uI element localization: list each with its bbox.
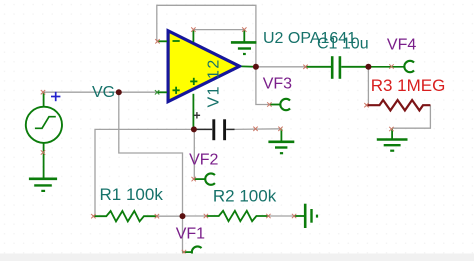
voltage generator VG circle: [26, 107, 62, 143]
op-amp inverting input marker: [173, 40, 180, 42]
resistor R2: [206, 211, 269, 221]
resistor R1: [93, 211, 156, 221]
wire node VF1 down to probe VF1: [183, 216, 186, 252]
resistor R3: [367, 100, 431, 110]
wire output node down to probe VF3: [256, 67, 270, 105]
probe VF3: [269, 99, 290, 110]
ground right of resistor R2 (rotated): [294, 204, 317, 228]
wire node VF4 down to resistor R3: [367, 67, 369, 105]
op-amp supply plus marker: [190, 78, 197, 85]
capacitor C2 plates (middle, dark): [214, 119, 225, 140]
node VF1 junction dot: [180, 213, 186, 219]
wire node VF4 to probe VF4: [368, 66, 404, 68]
wire node VF1 to resistor R2: [183, 215, 206, 217]
plus marker near V- pin: [194, 112, 200, 118]
node VF2 junction dot: [191, 126, 197, 132]
wire resistor R2 to right ground: [268, 215, 305, 217]
op-amp V+ pin: [192, 30, 194, 42]
svg-text:R3 1MEG: R3 1MEG: [371, 76, 446, 95]
svg-text:R1 100k: R1 100k: [100, 185, 164, 204]
voltage generator top lead: [43, 92, 45, 107]
node VG junction dot: [116, 89, 122, 95]
probe VF2: [194, 173, 215, 184]
node output junction dot: [253, 64, 259, 70]
ground below resistor R3: [377, 129, 408, 151]
svg-text:VG: VG: [92, 84, 115, 101]
op-amp output pin: [242, 65, 256, 67]
wire output node to capacitor C1: [256, 66, 306, 68]
pin cross marker at op-amp + input: [155, 90, 159, 94]
op-amp U2 triangle: [167, 28, 244, 104]
svg-text:R2 100k: R2 100k: [213, 187, 277, 206]
capacitor C2 right lead: [226, 128, 234, 130]
bottom window strip: [0, 254, 474, 261]
voltage generator waveform: [35, 117, 56, 129]
svg-text:VF4: VF4: [387, 37, 416, 54]
ground at op-amp V+: [231, 30, 257, 54]
pin cross markers: [41, 27, 394, 254]
wire node VG down to node VF1: [119, 92, 183, 216]
wire resistor R3 to lower-right ground: [392, 105, 430, 128]
wire VG source to op-amp non-inverting input: [43, 91, 158, 93]
wire feedback loop output to inverting input: [157, 5, 256, 67]
wire resistor R1 right lead to node VF1: [157, 215, 183, 217]
wire node VF2 to resistor R1: [95, 129, 194, 216]
voltage generator plus polarity: [51, 92, 60, 101]
capacitor C1 right lead: [341, 66, 368, 68]
node VF4 junction dot: [365, 64, 371, 70]
probe VF1: [183, 246, 202, 257]
op-amp inverting input pin: [158, 40, 168, 42]
svg-text:VF1: VF1: [176, 225, 205, 242]
wire node VF2 down to probe VF2: [194, 129, 196, 179]
svg-text:VF2: VF2: [189, 151, 218, 168]
capacitor C1 plates: [332, 56, 340, 79]
probe VF4: [404, 61, 414, 72]
ground right of capacitor C2: [268, 129, 294, 153]
capacitor C2 left lead: [195, 128, 213, 130]
wire capacitor C2 right plate to middle ground: [234, 128, 281, 131]
ground below generator: [29, 179, 57, 191]
svg-text:VF3: VF3: [263, 75, 292, 92]
svg-text:V1 12: V1 12: [205, 58, 222, 107]
svg-text:C1 10u: C1 10u: [317, 35, 369, 52]
wire op-amp V+ pin to top ground: [193, 29, 244, 31]
voltage generator bottom lead: [43, 143, 45, 179]
op-amp non-inverting input pin: [158, 91, 168, 93]
op-amp V- pin: [192, 94, 194, 130]
capacitor C1 left lead: [306, 66, 332, 68]
op-amp non-inverting input marker: [173, 87, 180, 94]
